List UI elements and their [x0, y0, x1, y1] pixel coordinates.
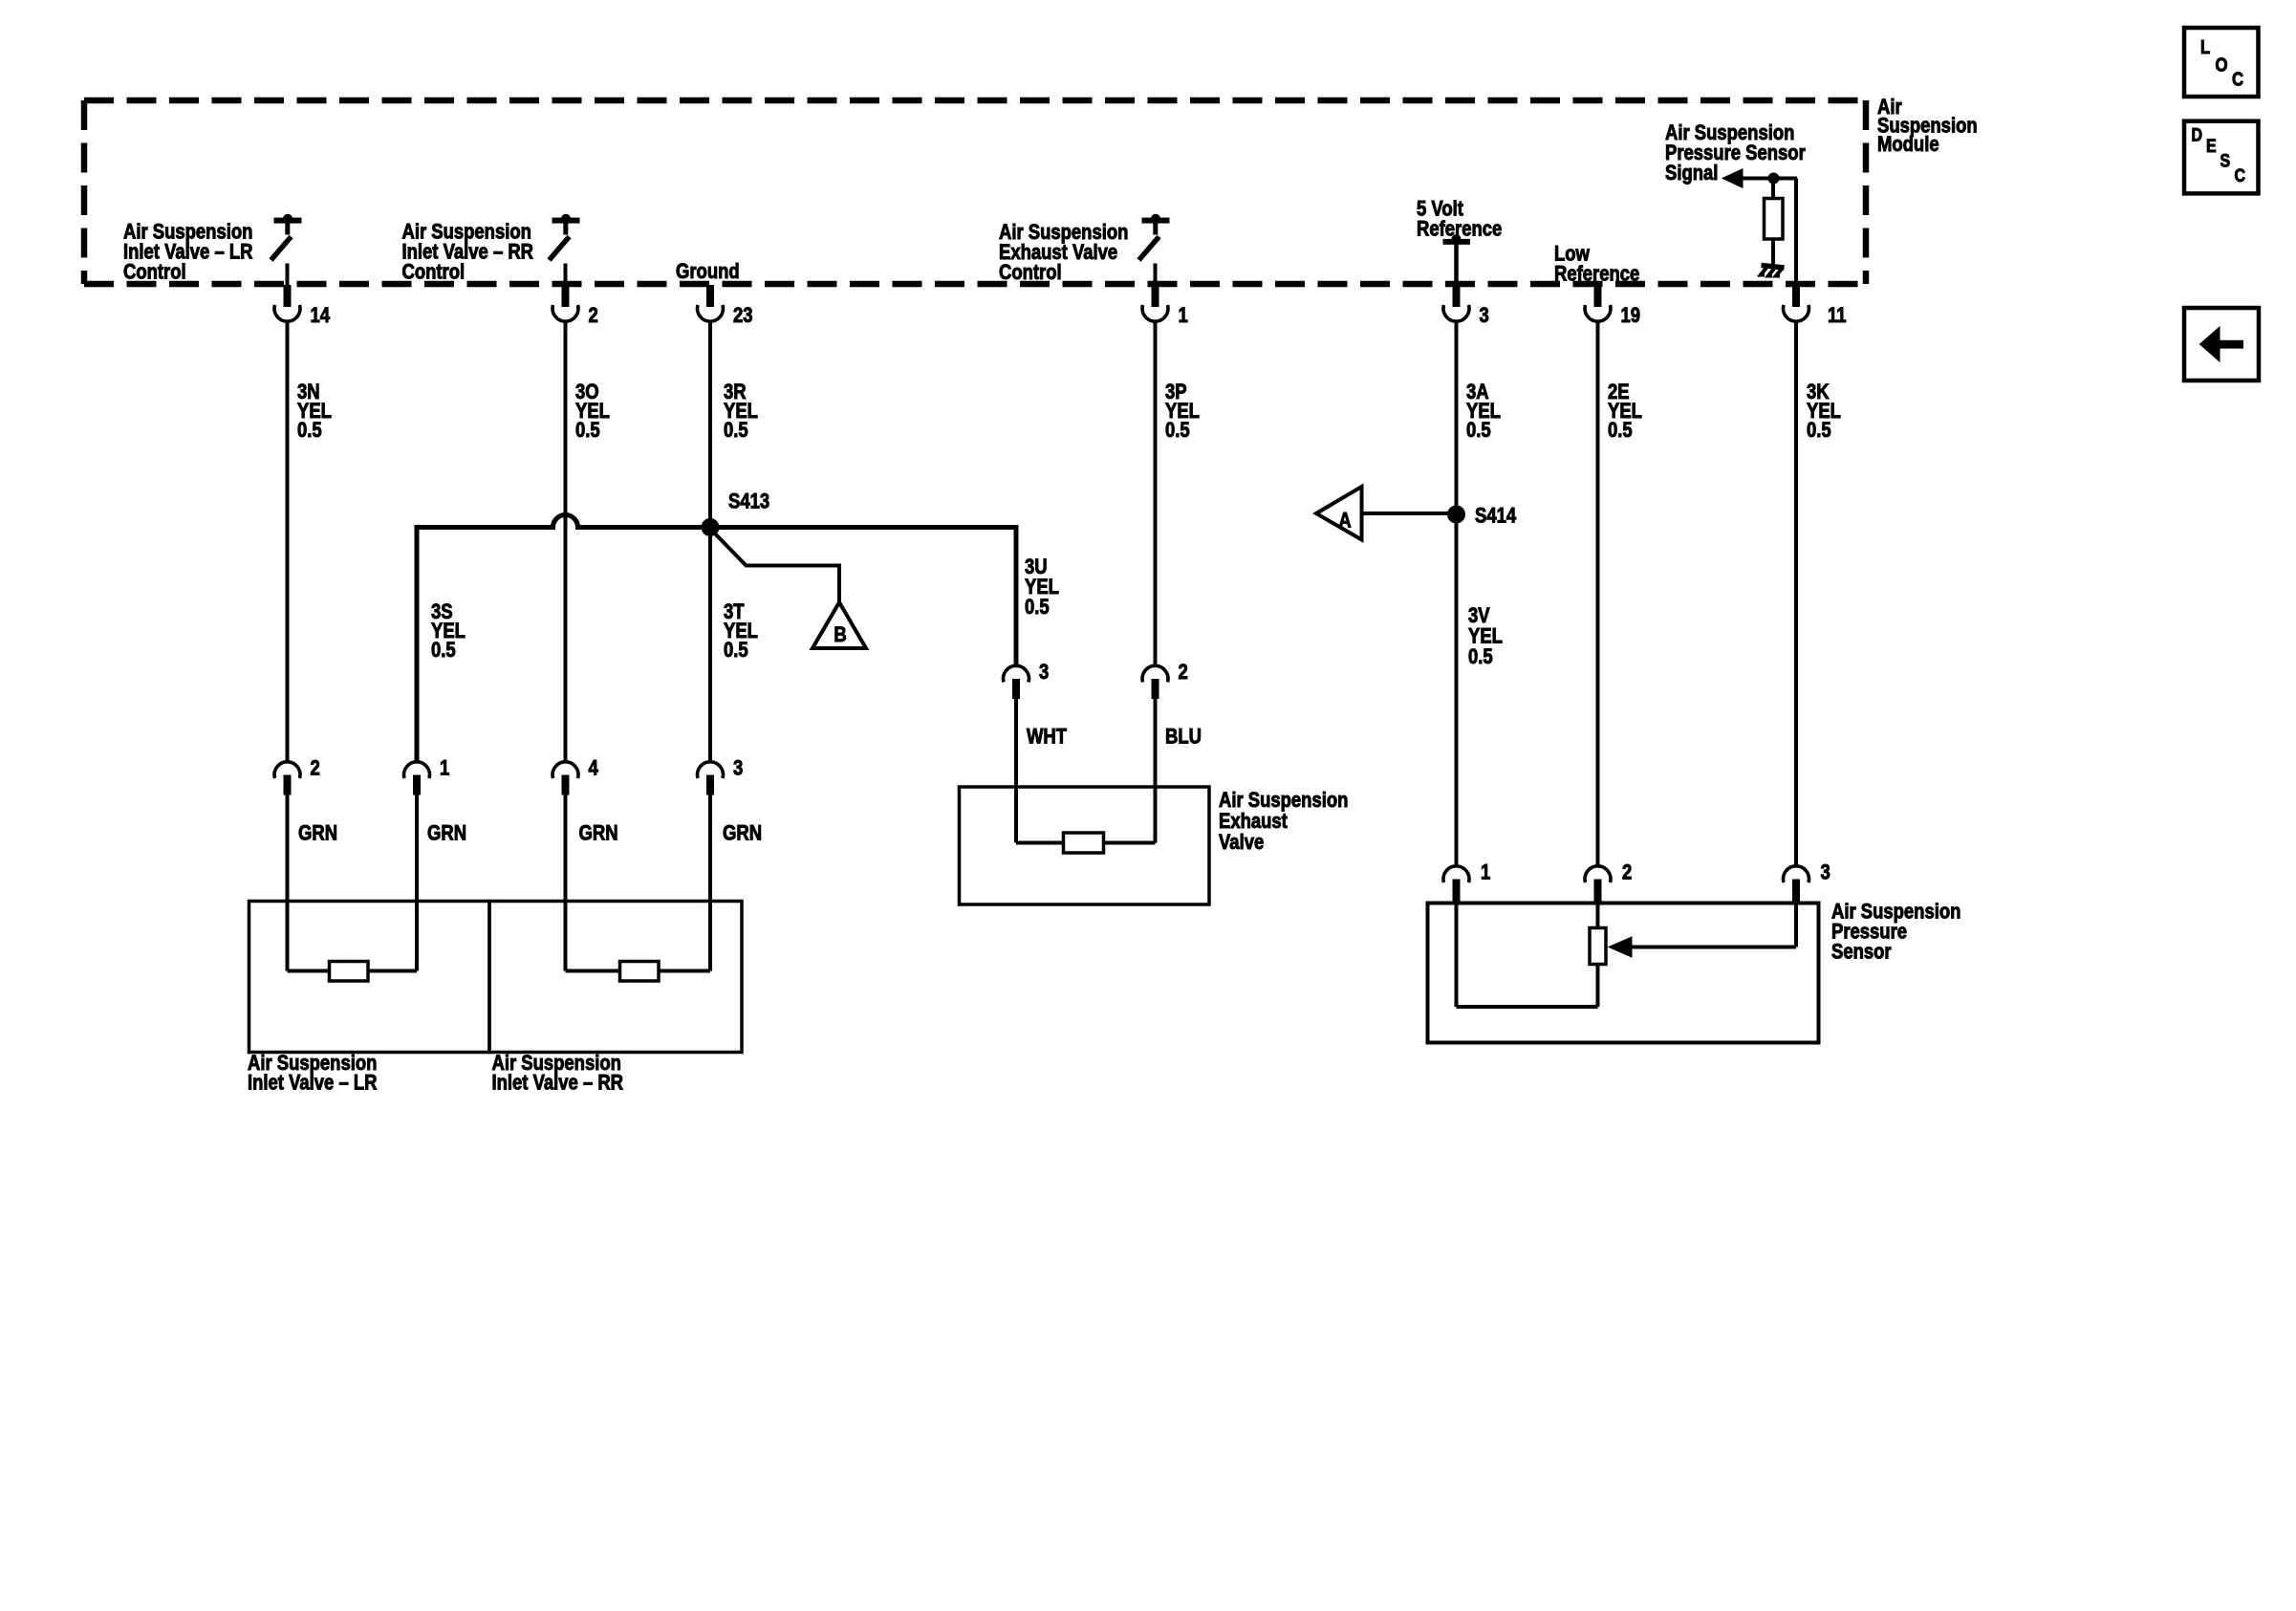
svg-text:Exhaust: Exhaust — [1219, 811, 1288, 834]
svg-text:3: 3 — [1039, 662, 1049, 685]
svg-text:Control: Control — [402, 261, 466, 284]
svg-text:Inlet Valve – LR: Inlet Valve – LR — [248, 1072, 378, 1095]
svg-text:GRN: GRN — [723, 822, 762, 845]
svg-text:0.5: 0.5 — [575, 420, 600, 443]
svg-text:0.5: 0.5 — [297, 420, 322, 443]
svg-text:BLU: BLU — [1165, 726, 1202, 749]
svg-text:1: 1 — [440, 757, 449, 780]
svg-text:Ground: Ground — [676, 261, 740, 284]
svg-text:0.5: 0.5 — [1608, 420, 1633, 443]
svg-text:2: 2 — [311, 757, 320, 780]
svg-text:YEL: YEL — [1468, 625, 1503, 648]
svg-text:19: 19 — [1621, 305, 1641, 328]
svg-text:O: O — [2216, 54, 2228, 76]
svg-text:0.5: 0.5 — [1025, 597, 1050, 620]
svg-text:C: C — [2232, 68, 2243, 90]
svg-text:0.5: 0.5 — [1165, 420, 1190, 443]
svg-text:Inlet Valve – RR: Inlet Valve – RR — [492, 1072, 624, 1095]
svg-text:WHT: WHT — [1027, 726, 1068, 749]
svg-text:1: 1 — [1481, 861, 1490, 884]
svg-text:3V: 3V — [1468, 605, 1490, 628]
svg-text:0.5: 0.5 — [431, 640, 456, 663]
svg-text:14: 14 — [311, 305, 331, 328]
svg-text:C: C — [2235, 165, 2246, 186]
svg-text:3: 3 — [733, 757, 743, 780]
svg-text:B: B — [834, 624, 846, 647]
svg-text:Air Suspension: Air Suspension — [1219, 790, 1348, 813]
svg-text:Reference: Reference — [1417, 218, 1502, 241]
svg-text:GRN: GRN — [298, 822, 337, 845]
svg-text:3: 3 — [1480, 305, 1489, 328]
svg-text:3: 3 — [1821, 861, 1830, 884]
svg-text:0.5: 0.5 — [1807, 420, 1831, 443]
svg-text:Module: Module — [1877, 134, 1939, 157]
svg-text:GRN: GRN — [579, 822, 618, 845]
svg-text:0.5: 0.5 — [724, 420, 748, 443]
svg-text:0.5: 0.5 — [724, 640, 748, 663]
svg-text:4: 4 — [589, 757, 599, 780]
svg-text:Control: Control — [123, 261, 186, 284]
svg-text:2: 2 — [1622, 861, 1632, 884]
svg-text:0.5: 0.5 — [1466, 420, 1491, 443]
svg-text:2: 2 — [1179, 662, 1188, 685]
svg-text:11: 11 — [1828, 305, 1847, 328]
svg-text:GRN: GRN — [427, 822, 466, 845]
svg-text:S413: S413 — [728, 490, 769, 513]
svg-text:2: 2 — [589, 305, 598, 328]
svg-text:Signal: Signal — [1665, 163, 1718, 185]
svg-text:1: 1 — [1179, 305, 1188, 328]
svg-text:S: S — [2220, 150, 2231, 171]
svg-text:D: D — [2192, 124, 2203, 145]
svg-text:Valve: Valve — [1219, 832, 1264, 855]
svg-text:23: 23 — [733, 305, 753, 328]
svg-text:E: E — [2206, 136, 2217, 157]
svg-text:Control: Control — [999, 262, 1062, 285]
svg-text:Sensor: Sensor — [1831, 941, 1892, 964]
svg-text:A: A — [1338, 510, 1352, 533]
svg-text:L: L — [2200, 36, 2210, 58]
svg-text:0.5: 0.5 — [1468, 646, 1493, 669]
svg-text:S414: S414 — [1475, 505, 1517, 528]
svg-text:Reference: Reference — [1554, 263, 1639, 286]
